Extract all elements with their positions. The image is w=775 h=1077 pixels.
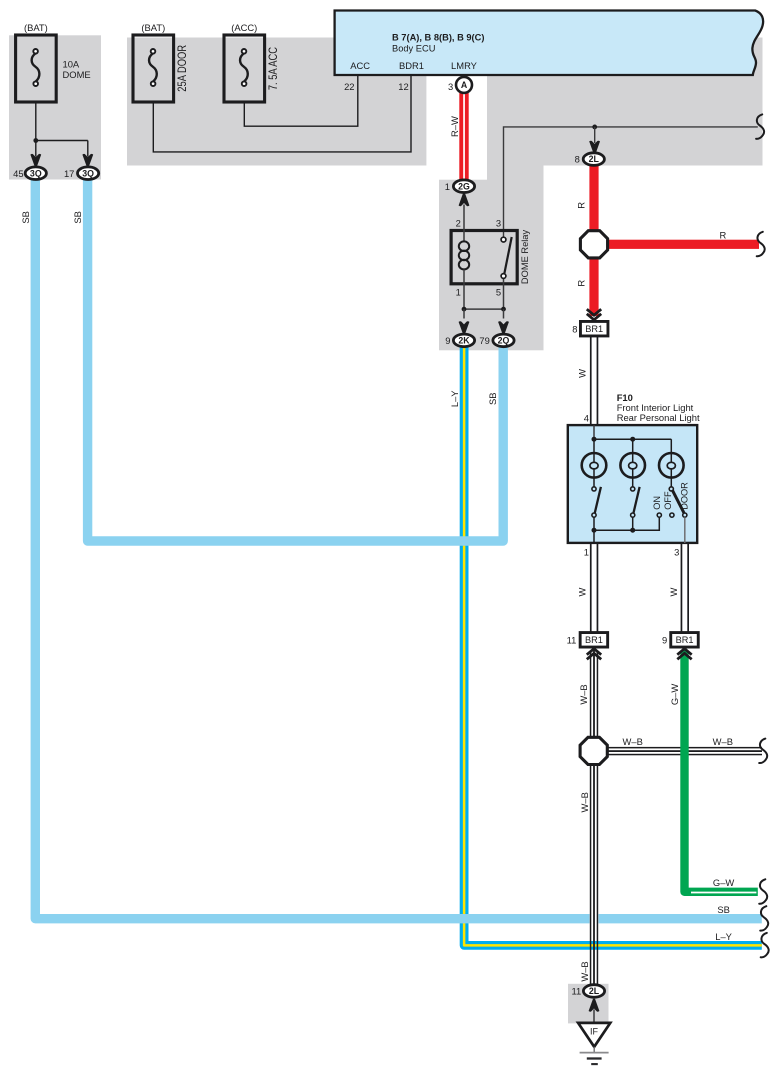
svg-text:Body ECU: Body ECU	[392, 44, 435, 54]
svg-text:17: 17	[64, 168, 74, 179]
svg-text:ACC: ACC	[350, 60, 370, 71]
svg-text:G–W: G–W	[713, 877, 735, 888]
svg-text:22: 22	[344, 81, 354, 92]
svg-text:SB: SB	[487, 393, 498, 406]
svg-text:79: 79	[479, 335, 489, 346]
svg-text:W–B: W–B	[623, 736, 643, 747]
svg-text:BR1: BR1	[585, 324, 603, 334]
svg-text:3: 3	[496, 218, 501, 229]
svg-text:2: 2	[456, 218, 461, 229]
svg-text:R: R	[575, 280, 586, 287]
svg-text:Rear Personal Light: Rear Personal Light	[617, 412, 700, 423]
svg-text:(BAT): (BAT)	[24, 22, 48, 33]
svg-text:R–W: R–W	[449, 116, 460, 137]
svg-text:BR1: BR1	[676, 635, 694, 645]
svg-text:IF: IF	[590, 1026, 599, 1036]
svg-text:ON: ON	[652, 496, 662, 510]
svg-text:BDR1: BDR1	[399, 60, 424, 71]
svg-text:1: 1	[584, 546, 589, 557]
svg-text:SB: SB	[20, 211, 31, 224]
svg-text:11: 11	[567, 634, 577, 645]
svg-text:(BAT): (BAT)	[141, 22, 165, 33]
svg-text:11: 11	[571, 986, 581, 997]
svg-text:25A DOOR: 25A DOOR	[176, 45, 189, 92]
svg-text:G–W: G–W	[669, 684, 680, 706]
svg-text:DOME Relay: DOME Relay	[520, 230, 530, 285]
svg-text:4: 4	[584, 413, 589, 424]
svg-text:3Q: 3Q	[30, 168, 42, 178]
svg-text:SB: SB	[72, 211, 83, 224]
svg-text:2G: 2G	[458, 181, 470, 191]
svg-text:45: 45	[13, 168, 23, 179]
svg-text:W–B: W–B	[578, 684, 589, 704]
svg-text:5: 5	[496, 287, 501, 298]
svg-text:1: 1	[445, 181, 450, 192]
svg-text:8: 8	[572, 323, 577, 334]
svg-text:W–B: W–B	[579, 792, 590, 812]
svg-text:W–B: W–B	[713, 736, 733, 747]
svg-text:8: 8	[575, 154, 580, 165]
svg-text:R: R	[575, 202, 586, 209]
svg-text:OFF: OFF	[663, 491, 673, 510]
svg-text:W–B: W–B	[579, 961, 590, 981]
svg-text:BR1: BR1	[585, 635, 603, 645]
svg-text:12: 12	[398, 81, 408, 92]
svg-text:W: W	[577, 369, 588, 378]
svg-text:3Q: 3Q	[82, 168, 94, 178]
svg-text:10A: 10A	[63, 58, 80, 69]
svg-text:7. 5A ACC: 7. 5A ACC	[267, 47, 280, 90]
svg-text:SB: SB	[717, 904, 730, 915]
svg-text:2K: 2K	[458, 336, 470, 346]
svg-text:DOOR: DOOR	[680, 482, 690, 510]
svg-text:A: A	[461, 80, 468, 90]
svg-text:R: R	[720, 230, 727, 241]
svg-text:9: 9	[445, 335, 450, 346]
svg-text:1: 1	[456, 287, 461, 298]
svg-text:2Q: 2Q	[498, 336, 510, 346]
svg-text:L–Y: L–Y	[449, 390, 460, 407]
svg-text:B 7(A), B 8(B), B 9(C): B 7(A), B 8(B), B 9(C)	[392, 32, 484, 42]
svg-text:9: 9	[662, 634, 667, 645]
svg-text:L–Y: L–Y	[715, 931, 732, 942]
svg-text:2L: 2L	[589, 154, 600, 164]
svg-text:LMRY: LMRY	[451, 60, 478, 71]
svg-text:W: W	[577, 588, 588, 597]
svg-text:3: 3	[674, 546, 679, 557]
svg-text:DOME: DOME	[63, 69, 91, 80]
svg-text:2L: 2L	[589, 986, 600, 996]
svg-text:W: W	[668, 588, 679, 597]
svg-text:(ACC): (ACC)	[231, 22, 257, 33]
svg-text:3: 3	[448, 81, 453, 92]
